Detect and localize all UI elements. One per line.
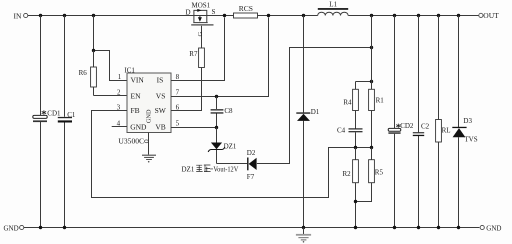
svg-text:G: G <box>197 32 204 37</box>
capacitor CD1 <box>33 16 61 228</box>
svg-text:R1: R1 <box>376 97 385 105</box>
label U3500C <box>118 136 148 145</box>
svg-text:D3: D3 <box>463 117 472 125</box>
terminal IN <box>14 11 28 20</box>
svg-text:FB: FB <box>131 106 140 115</box>
node rail-CD1 <box>39 226 42 229</box>
svg-text:D1: D1 <box>311 108 320 116</box>
svg-text:C2: C2 <box>421 122 430 130</box>
svg-text:L1: L1 <box>329 0 337 8</box>
capacitor C1 <box>58 16 76 228</box>
svg-text:C4: C4 <box>337 127 346 135</box>
node CD2 junction <box>393 14 396 17</box>
node C2 junction <box>417 14 420 17</box>
node R4-R1 junction <box>370 80 373 83</box>
diode D3 TVS <box>452 16 477 228</box>
wire EN <box>94 95 128 97</box>
svg-text:OUT: OUT <box>483 11 499 20</box>
svg-text:VS: VS <box>156 91 166 100</box>
capacitor C2 <box>413 16 430 228</box>
resistor R2 <box>343 148 359 228</box>
svg-text:GND: GND <box>4 225 19 233</box>
svg-text:F7: F7 <box>247 173 255 181</box>
svg-text:R2: R2 <box>343 170 352 178</box>
node rail-RL <box>437 226 440 229</box>
node S junction <box>223 14 226 17</box>
capacitor C4 <box>337 127 363 148</box>
terminal OUT <box>479 11 499 20</box>
ground IC <box>142 133 156 163</box>
svg-text:7: 7 <box>176 89 180 97</box>
svg-text:VB: VB <box>155 122 165 131</box>
diode D1 <box>296 16 319 228</box>
svg-text:D: D <box>186 9 191 17</box>
node R2-R5 junction <box>354 200 357 203</box>
svg-text:R7: R7 <box>189 50 198 58</box>
svg-text:SW: SW <box>155 106 167 115</box>
svg-text:R5: R5 <box>375 169 384 177</box>
resistor RL <box>436 16 451 228</box>
node D3 junction <box>457 14 460 17</box>
terminal GND right <box>480 224 501 232</box>
wire VIN branch <box>94 16 128 81</box>
ground main <box>296 228 311 243</box>
svg-text:EN: EN <box>131 91 142 100</box>
resistor R4 <box>343 82 371 129</box>
op-amp U1 IC1 box <box>124 66 171 132</box>
wire bottom rail <box>24 227 480 229</box>
svg-text:R6: R6 <box>79 69 88 77</box>
wire VB net <box>171 127 217 129</box>
svg-text:MOS1: MOS1 <box>192 2 211 10</box>
node rail-C1 <box>63 226 66 229</box>
node RCS right junction <box>267 14 270 17</box>
wire SW net <box>171 68 202 111</box>
node rail-R2 <box>354 226 357 229</box>
svg-text:IN: IN <box>14 11 22 20</box>
node SW-L1 junction <box>302 14 305 17</box>
svg-text:S: S <box>212 8 216 16</box>
wire pin4 stub <box>112 126 127 128</box>
node rail-D1 <box>302 226 305 229</box>
svg-text:CD1: CD1 <box>47 110 61 118</box>
svg-text:5: 5 <box>176 119 180 127</box>
node OUT-L1 junction <box>370 14 373 17</box>
node RL junction <box>437 14 440 17</box>
resistor RCS <box>234 4 258 18</box>
wire VS net <box>171 18 269 97</box>
svg-text:GND: GND <box>145 109 152 123</box>
svg-text:1: 1 <box>118 73 122 81</box>
svg-text:D2: D2 <box>247 149 256 157</box>
node FB-R2 junction <box>354 146 357 149</box>
wire DZ1 to D2 <box>217 163 248 165</box>
wire top rail <box>28 15 479 17</box>
svg-text:DZ1: DZ1 <box>182 166 195 174</box>
svg-text:VIN: VIN <box>131 76 145 85</box>
capacitor CD2 <box>388 16 414 228</box>
svg-text:DZ1: DZ1 <box>224 142 237 150</box>
svg-text:TVS: TVS <box>464 136 477 144</box>
svg-text:R4: R4 <box>343 99 352 107</box>
svg-text:RCS: RCS <box>239 4 253 13</box>
wire D2 to OUT link <box>257 48 372 164</box>
resistor R6 <box>79 51 97 96</box>
resistor R7 <box>189 48 204 68</box>
diode D2 <box>247 149 257 181</box>
svg-text:2: 2 <box>117 89 121 97</box>
svg-text:C8: C8 <box>224 107 233 115</box>
capacitor C8 <box>211 97 233 128</box>
node rail-D3 <box>457 226 460 229</box>
svg-text:8: 8 <box>176 73 180 81</box>
svg-text:RL: RL <box>442 127 451 135</box>
node VB-DZ1 junction <box>215 126 218 129</box>
label DZ1 voltage note <box>182 165 239 174</box>
svg-text:=Vout-12V: =Vout-12V <box>210 166 239 174</box>
node junction IN-CD1 <box>39 14 42 17</box>
node FB-R5 junction <box>370 146 373 149</box>
svg-text:IS: IS <box>157 76 164 85</box>
node junction IN-C1 <box>63 14 66 17</box>
node junction VIN branch <box>92 14 95 17</box>
svg-text:U3500C: U3500C <box>118 136 144 145</box>
node VIN-R6 junction <box>92 49 95 52</box>
node VS-C8 junction <box>215 95 218 98</box>
resistor R1 <box>369 16 385 148</box>
transistor MOS1 <box>186 2 216 49</box>
inductor L1 <box>318 0 348 15</box>
node link-OUT junction <box>370 46 373 49</box>
node rail-CD2 <box>393 226 396 229</box>
node rail-C2 <box>417 226 420 229</box>
resistor R5 <box>356 148 384 202</box>
wire FB net <box>92 111 372 198</box>
svg-text:CD2: CD2 <box>400 122 414 130</box>
wire IS net <box>171 18 225 81</box>
terminal GND left <box>4 225 24 233</box>
svg-text:GND: GND <box>486 224 501 232</box>
diode DZ1 zener <box>208 128 237 164</box>
